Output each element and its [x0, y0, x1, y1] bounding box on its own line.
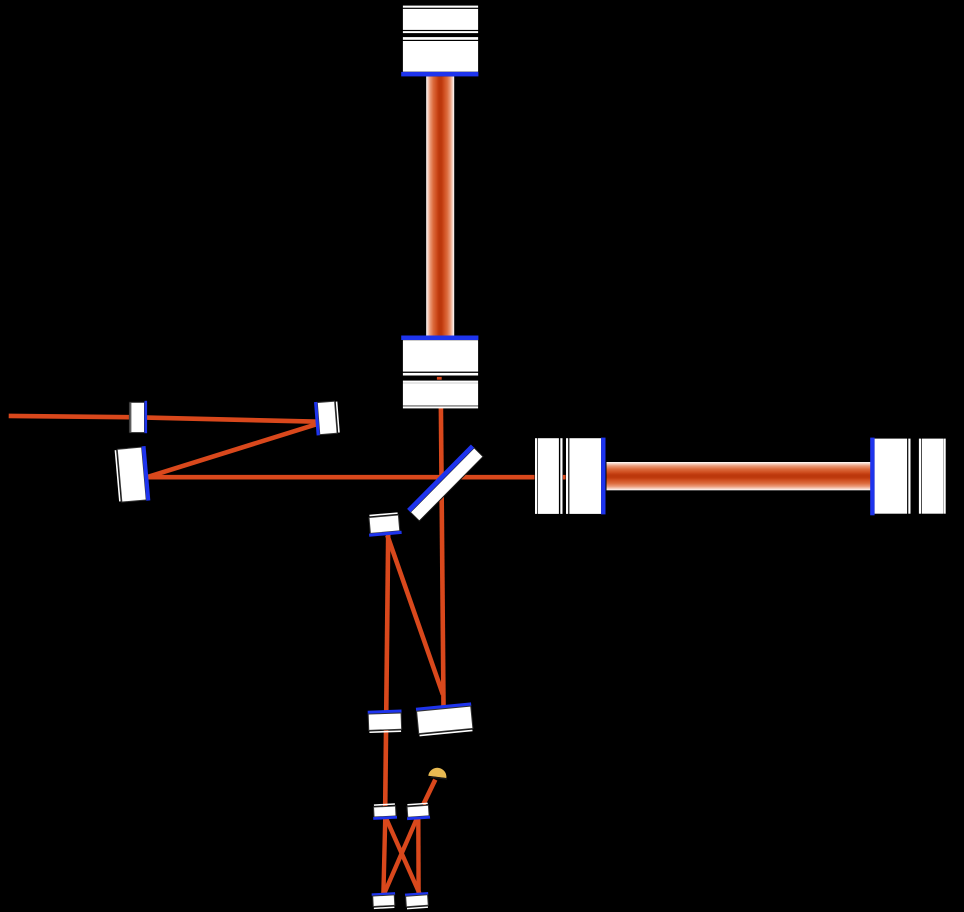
compensation plate CPX: [535, 438, 563, 514]
beam: PR2 to PR3: [147, 423, 320, 477]
beam: stub inside ITMX gap: [563, 475, 566, 480]
mirror SR3: [416, 702, 474, 736]
beam: ITMY through BS down to SR3: [441, 408, 444, 706]
mirror ITMY: [401, 336, 478, 376]
beam: PR3 to BS to ITMX: [146, 475, 535, 480]
beam: OMC to photodiode: [423, 780, 435, 805]
beam: Y-arm cavity beam (thick): [426, 76, 454, 335]
beam: laser input to PRM and PR2: [9, 416, 319, 422]
beam: OMC bowtie left vertical: [383, 816, 385, 894]
beam: OMC bowtie diagonal TL-BR: [386, 817, 420, 894]
mirror PR2: [314, 400, 340, 435]
mirror SRM: [368, 710, 403, 734]
OMC mirror top-right: [406, 803, 430, 821]
beam: OMC bowtie diagonal TR-BL: [384, 817, 418, 894]
mirror SR2: [367, 512, 401, 537]
beamsplitter BS: [407, 445, 483, 522]
beam: OMC bowtie right vertical: [416, 817, 421, 894]
photodiode (yellow): [428, 767, 448, 779]
OMC mirror bottom-left: [372, 892, 396, 909]
mirror ITMX: [566, 438, 606, 515]
mirror ETMY: [401, 37, 478, 76]
mirror ETMX: [870, 438, 910, 516]
beam: SR3 to SR2: [387, 535, 443, 694]
mirror ETMX reaction mass: [919, 439, 946, 514]
compensation plate CPY: [403, 381, 478, 409]
mirror ETMY reaction mass (top): [403, 6, 478, 33]
beam: SR2 through SRM down to OMC: [385, 534, 388, 807]
mirror PRM: [129, 401, 147, 433]
OMC mirror bottom-right: [405, 892, 429, 909]
OMC mirror top-left: [372, 803, 397, 820]
beam: stub inside ITMY gap: [437, 377, 442, 380]
mirror PR3: [114, 446, 150, 503]
beam: X-arm cavity beam (thick): [607, 462, 872, 490]
